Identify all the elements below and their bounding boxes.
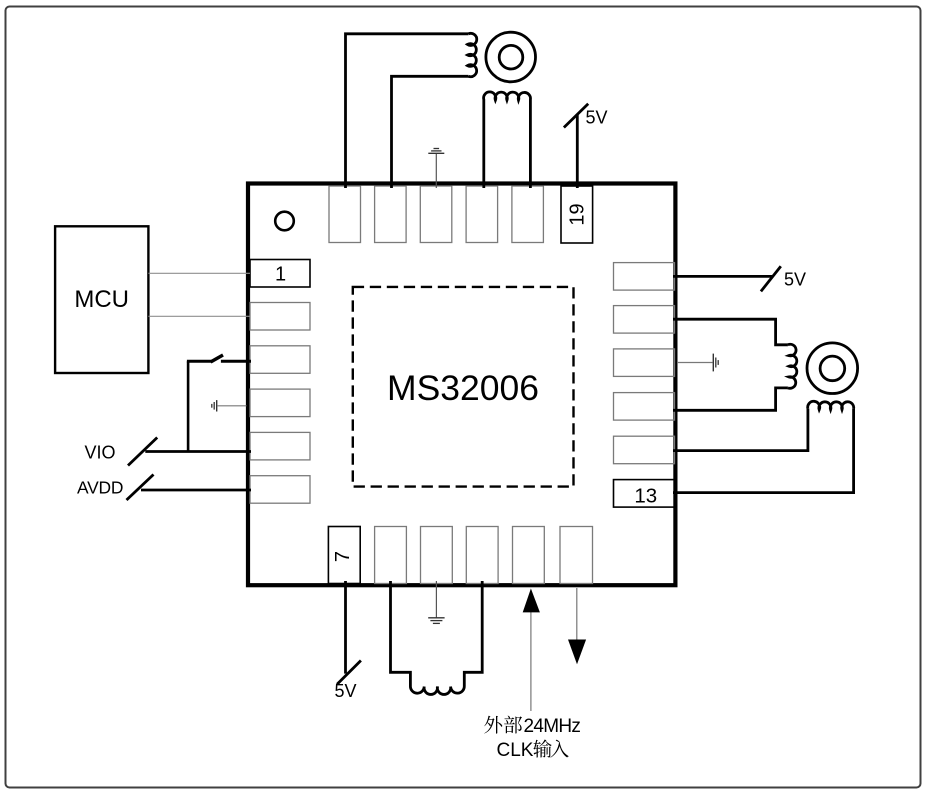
wire switch to VIO rail <box>187 361 190 451</box>
ground at pin 4 <box>212 400 247 411</box>
ground at pin 9 <box>428 581 444 623</box>
pin 19 <box>561 186 593 243</box>
pin 7 <box>328 527 360 584</box>
MCU box U2 <box>55 226 148 373</box>
svg-text:5V: 5V <box>784 270 806 290</box>
pin 16 <box>614 349 675 377</box>
svg-text:5V: 5V <box>334 681 356 701</box>
motor M2 <box>807 343 858 394</box>
pin 1 <box>250 260 310 288</box>
AVDD supply <box>77 475 251 501</box>
wire L1 to pin 23 <box>392 76 469 188</box>
coil L3 <box>788 344 797 388</box>
coil L4 <box>410 686 464 694</box>
svg-text:7: 7 <box>332 551 354 562</box>
wire pin 24 up to inductor L1 <box>346 34 469 188</box>
wire pin 8 to coil L4 <box>391 581 411 686</box>
pin 5 <box>250 432 310 460</box>
pin 13 <box>614 480 675 508</box>
svg-text:1: 1 <box>275 264 286 286</box>
pin 24 <box>329 186 361 243</box>
svg-text:VIO: VIO <box>85 442 116 462</box>
pin 15 <box>614 393 675 421</box>
pin 12 <box>560 527 593 584</box>
wire MCU to pin 1 <box>148 272 250 274</box>
motor M1 <box>486 32 536 82</box>
pin 14 <box>614 436 675 464</box>
5V supply at pin 7 <box>334 581 360 701</box>
pin 2 <box>250 303 310 331</box>
pin 17 <box>614 306 675 334</box>
wire coil L4 to pin 10 <box>464 581 482 686</box>
svg-text:24MHz: 24MHz <box>524 716 581 737</box>
wire coil L3 to pin 15 <box>673 388 788 410</box>
inductor L1 <box>468 33 477 76</box>
IC U1 MS32006 body <box>248 184 675 586</box>
wire pin 17 to coil L3 <box>673 319 788 345</box>
pin 11 <box>513 527 545 584</box>
pin 1 indicator dot <box>275 212 294 231</box>
pin 22 <box>420 186 452 243</box>
wire coil L5 to pin 13 <box>673 409 854 493</box>
VIO supply <box>85 438 252 466</box>
label CLK input line 1 <box>484 716 580 737</box>
label CLK input line 2 <box>497 740 569 762</box>
5V supply at pin 19 <box>564 104 608 188</box>
pin 8 <box>375 527 407 584</box>
svg-text:MS32006: MS32006 <box>387 368 539 408</box>
IC inner dashed outline <box>353 287 574 487</box>
coil L5 <box>808 401 854 409</box>
pin 23 <box>375 186 407 243</box>
pin 10 <box>466 527 498 584</box>
output arrow at pin 12 <box>568 588 586 664</box>
svg-text:13: 13 <box>634 485 657 508</box>
svg-text:CLK: CLK <box>497 740 534 761</box>
wire MCU to pin 2 <box>148 315 250 317</box>
CLK input arrow at pin 11 <box>523 589 540 712</box>
pin 18 <box>614 263 675 291</box>
switch S1 <box>187 355 251 362</box>
pin 9 <box>421 527 453 584</box>
svg-text:MCU: MCU <box>74 286 129 313</box>
5V supply at pin 18 <box>673 266 806 291</box>
pin 21 <box>466 186 498 243</box>
svg-text:19: 19 <box>567 203 589 225</box>
svg-text:5V: 5V <box>586 108 608 128</box>
ground at pin 22 <box>428 149 444 189</box>
ground at pin 16 <box>677 354 718 372</box>
pin 3 <box>250 346 310 374</box>
coil L2 pins 21-20 <box>484 92 531 188</box>
pin 4 <box>250 389 310 417</box>
svg-text:AVDD: AVDD <box>77 477 123 497</box>
wire pin 14 to coil L5 <box>673 409 808 451</box>
pin 20 <box>512 186 544 243</box>
pin 6 <box>250 476 310 504</box>
